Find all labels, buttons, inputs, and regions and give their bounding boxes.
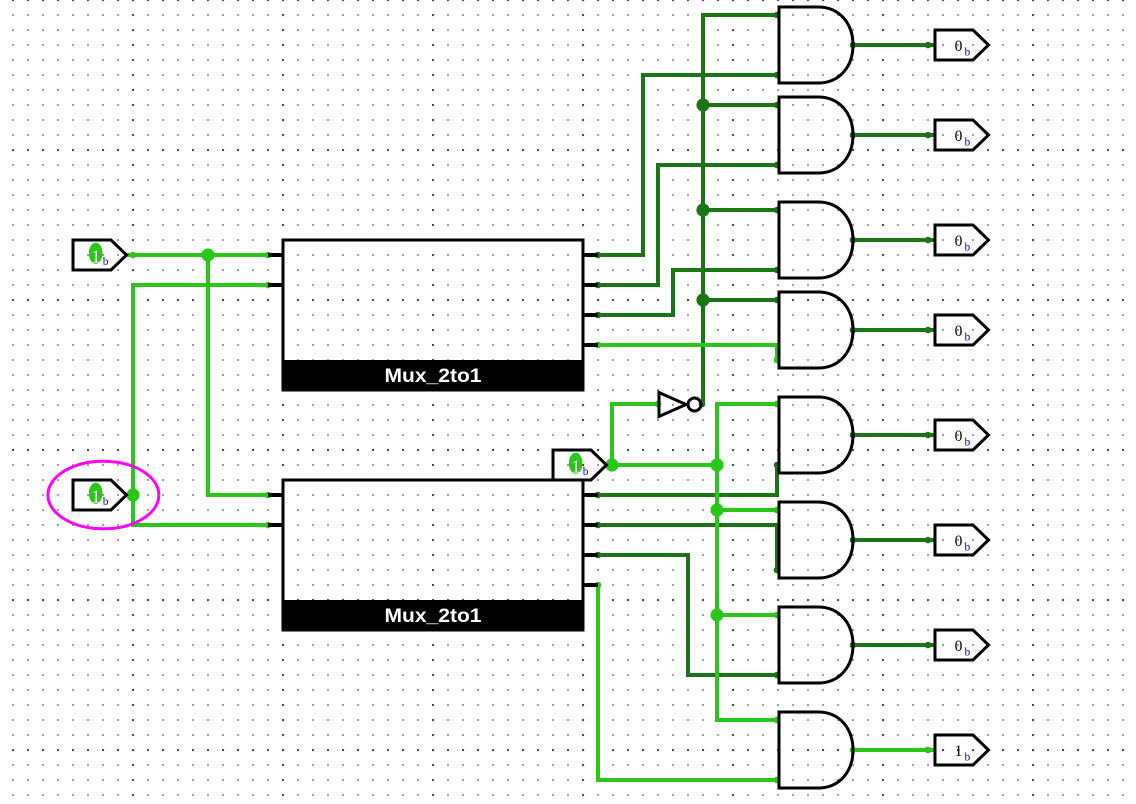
wire bus branch to AND6.a xyxy=(717,508,779,512)
wire bus branch to AND7.a xyxy=(717,613,779,617)
wire bus branch to AND3.a xyxy=(703,208,779,212)
wire Mux1.out1 to AND1.b xyxy=(598,75,779,255)
svg-text:0: 0 xyxy=(955,533,963,550)
svg-text:0: 0 xyxy=(955,323,963,340)
wire branch input A to Mux2.in1 xyxy=(208,255,268,495)
wire select to inverter input xyxy=(612,404,658,465)
svg-text:b: b xyxy=(965,137,971,149)
AND gate G6 (output y=540) xyxy=(779,502,853,578)
wire Mux2.out3 to AND7.b xyxy=(598,555,779,675)
svg-text:b: b xyxy=(583,466,589,478)
AND gate G8 (output y=750) xyxy=(779,712,853,788)
output pin Y (value 0) at y=540 xyxy=(935,525,989,555)
AND gate G3 (output y=240) xyxy=(779,202,853,278)
wire AND output to pin at y=135 xyxy=(853,133,935,137)
AND gate G4 (output y=330) xyxy=(779,292,853,368)
svg-text:b: b xyxy=(965,332,971,344)
output pin Y (value 1) at y=750 xyxy=(935,735,989,765)
svg-text:0: 0 xyxy=(955,428,963,445)
wire AND output to pin at y=330 xyxy=(853,328,935,332)
AND gate G7 (output y=645) xyxy=(779,607,853,683)
wire input A to Mux1.in1 xyxy=(126,253,268,257)
svg-text:b: b xyxy=(965,752,971,764)
wire Mux2.out2 to AND6.b xyxy=(598,525,777,570)
svg-text:1: 1 xyxy=(92,486,101,506)
wire AND output to pin at y=645 xyxy=(853,643,935,647)
Mux_2to1 U1 pin stubs xyxy=(268,255,598,345)
Mux_2to1 U2 pin stubs xyxy=(268,495,598,585)
wire AND output to pin at y=45 xyxy=(853,43,935,47)
output pin Y (value 0) at y=330 xyxy=(935,315,989,345)
AND gate G5 (output y=435) xyxy=(779,397,853,473)
wire junctions (logic 1) xyxy=(126,248,723,621)
svg-text:0: 0 xyxy=(955,233,963,250)
wire input B to Mux1.in2 and Mux2.in2 xyxy=(133,285,268,525)
wire endpoint dots (logic 1) xyxy=(130,252,932,784)
wire Mux1.out2 to AND2.b xyxy=(598,165,779,285)
wire Mux2.out4 to AND8.b xyxy=(598,585,779,780)
wire Mux2.out1 to AND5.b xyxy=(598,465,777,495)
AND gate G2 (output y=135) xyxy=(779,97,853,173)
input pin IN_A (value 1) xyxy=(73,240,127,270)
svg-text:b: b xyxy=(965,242,971,254)
wire AND output to pin at y=435 xyxy=(853,433,935,437)
output pin Y (value 0) at y=45 xyxy=(935,30,989,60)
wire AND output to pin at y=540 xyxy=(853,538,935,542)
wire Mux1.out3 to AND3.b xyxy=(598,270,779,315)
svg-text:0: 0 xyxy=(955,38,963,55)
highlight ellipse around input pin IN_B xyxy=(48,461,159,529)
wire AND output to pin at y=240 xyxy=(853,238,935,242)
inverter U3 (NOT gate) xyxy=(659,393,701,417)
output pin Y (value 0) at y=135 xyxy=(935,120,989,150)
svg-text:b: b xyxy=(103,496,109,508)
wire junctions (logic 0) xyxy=(696,98,709,306)
wire bus branch to AND2.a xyxy=(703,103,779,107)
wire select pin to bus xyxy=(606,463,717,467)
AND gate G1 (output y=45) xyxy=(779,7,853,83)
svg-text:1: 1 xyxy=(92,246,101,266)
svg-text:b: b xyxy=(965,542,971,554)
input pin IN_SEL (value 1) xyxy=(553,450,607,480)
wire select bus to AND5.a and AND8.a xyxy=(717,404,779,720)
svg-text:b: b xyxy=(965,437,971,449)
svg-text:1: 1 xyxy=(955,743,963,760)
wire bus branch to AND4.a xyxy=(703,298,779,302)
wire inverter-out bus up to AND1.a xyxy=(703,15,779,404)
output pin Y (value 0) at y=645 xyxy=(935,630,989,660)
svg-text:0: 0 xyxy=(955,638,963,655)
svg-text:0: 0 xyxy=(955,128,963,145)
output pin Y (value 0) at y=240 xyxy=(935,225,989,255)
subcircuit box Mux_2to1 U1 xyxy=(282,240,585,392)
svg-text:b: b xyxy=(103,256,109,268)
wire endpoint dots (logic 0) xyxy=(595,12,932,679)
svg-text:1: 1 xyxy=(572,456,581,476)
subcircuit box Mux_2to1 U2 xyxy=(282,480,585,632)
wire AND8 output to pin xyxy=(853,748,935,752)
svg-text:Mux_2to1: Mux_2to1 xyxy=(385,605,482,627)
svg-text:b: b xyxy=(965,47,971,59)
svg-text:Mux_2to1: Mux_2to1 xyxy=(385,365,482,387)
svg-text:b: b xyxy=(965,647,971,659)
output pin Y (value 0) at y=435 xyxy=(935,420,989,450)
input pin IN_B (value 1) xyxy=(73,480,127,510)
wire Mux1.out4 to AND4.b xyxy=(598,345,777,360)
